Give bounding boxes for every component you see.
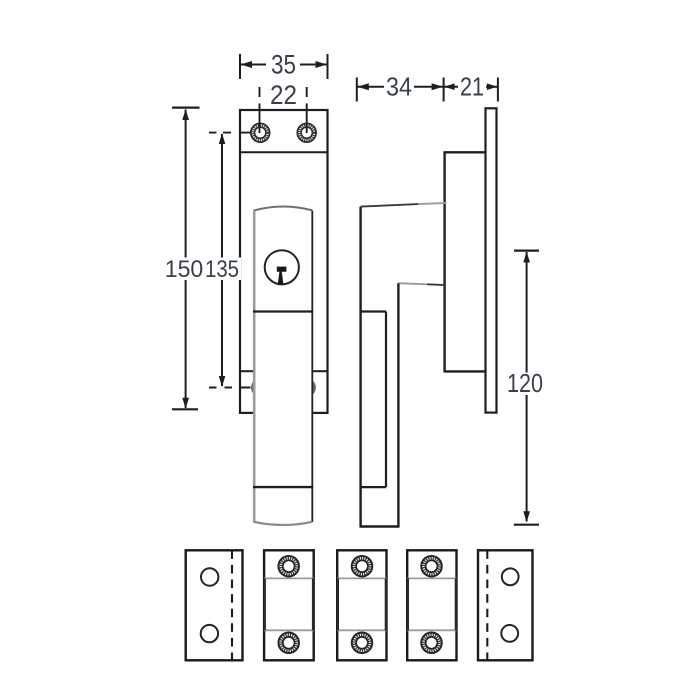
dim 150 arrow up — [182, 109, 189, 120]
handle grip body (front view, covers lower screws) — [254, 207, 313, 526]
backplate top section line — [240, 151, 328, 153]
side grip front edge — [359, 207, 361, 527]
dim 150 bottom bar — [172, 408, 198, 410]
dim 35 extension tick left — [239, 54, 241, 79]
dim 150 text — [163, 258, 204, 281]
dim 34 text — [384, 75, 414, 99]
keeper plate P5 hole bottom — [501, 625, 518, 642]
backplate lower section line left — [240, 370, 254, 372]
dim 150 line — [185, 110, 187, 409]
dim 35 line — [241, 64, 328, 66]
dim 135 text — [204, 258, 241, 281]
svg-text:22: 22 — [270, 80, 297, 110]
svg-text:150: 150 — [165, 256, 204, 283]
keeper plate P5 hole top — [502, 568, 519, 585]
side neck top — [445, 151, 486, 153]
dim 120 top bar — [514, 250, 539, 252]
dim 150 top bar — [172, 106, 200, 108]
keeper plate P5 dashed fold line — [486, 550, 488, 660]
keeper plate P3 screw bottom — [352, 633, 373, 654]
dim 120 arrow down — [523, 511, 530, 522]
keeper plate P3 screw top — [352, 556, 373, 577]
keeper plate P3 outline — [337, 550, 386, 660]
keeper plate P1 hole bottom — [201, 625, 218, 642]
side grip step bottom — [361, 486, 386, 488]
dim 21 arrow left — [444, 83, 455, 90]
dim 35 arrow left — [241, 61, 253, 68]
keeper plate P3 band — [337, 578, 386, 630]
keeper plate P2 outline — [264, 550, 314, 660]
dim 120 arrow up — [523, 252, 530, 263]
keyhole — [277, 267, 287, 285]
keeper plate P2 screw top — [278, 556, 299, 577]
dim 34/21 tick left — [356, 78, 358, 102]
dim 135 arrow down — [219, 376, 226, 387]
dim 135 top dash-dot — [209, 132, 251, 134]
svg-text:34: 34 — [386, 72, 412, 102]
top screw right — [297, 123, 316, 142]
backplate lower section line right — [312, 370, 327, 372]
keeper plate P4 screw top — [421, 556, 442, 577]
dim 120 bottom bar — [514, 524, 539, 526]
dim 35 extension tick right — [327, 54, 329, 79]
dim 120 line — [526, 252, 528, 522]
side neck bottom — [445, 370, 486, 372]
keeper plate P2 band — [264, 578, 314, 630]
dim 34/21 tick right — [497, 78, 499, 102]
keeper plate P4 band — [407, 578, 456, 630]
dim 21 arrow right — [487, 83, 498, 90]
lower screw right (mostly hidden behind grip) — [299, 380, 314, 395]
side grip step top — [361, 310, 386, 312]
keeper plate P4 screw bottom — [421, 633, 442, 654]
side neck front edge — [443, 151, 445, 372]
svg-text:120: 120 — [507, 368, 543, 398]
side grip bottom — [360, 525, 400, 528]
keeper plate P1 hole top — [201, 568, 218, 585]
svg-text:135: 135 — [205, 256, 239, 283]
dim 135 bottom dash-dot — [209, 387, 251, 389]
keeper plate P2 screw bottom — [278, 633, 299, 654]
side grip top slant — [361, 204, 418, 207]
handle left edge (grey shaded) — [253, 211, 256, 522]
dim 21 line — [444, 86, 497, 88]
dim 35 text — [266, 52, 300, 76]
grip bottom curve — [254, 522, 313, 525]
handle right edge — [311, 211, 313, 522]
dim 135 line — [221, 134, 223, 386]
dim 120 text — [506, 373, 546, 396]
handle arch top stroke — [254, 207, 313, 211]
top screw left — [251, 123, 270, 142]
dim 34/21 tick middle — [443, 78, 445, 102]
key cylinder — [265, 250, 299, 284]
keeper plate P1 dashed fold line — [231, 550, 233, 660]
lower screw left (mostly hidden behind grip) — [253, 380, 268, 395]
dim 22 dashed extension left — [259, 87, 261, 133]
dim 34 arrow right — [432, 83, 444, 90]
grip lower band line — [253, 486, 313, 488]
dim 34 arrow left — [357, 83, 369, 90]
svg-text:21: 21 — [460, 72, 484, 102]
svg-text:35: 35 — [271, 50, 296, 80]
side backplate (edge-on) — [486, 108, 497, 412]
dim 135 arrow up — [219, 133, 226, 144]
grip top line — [253, 310, 313, 312]
keeper plate P5 outline — [478, 550, 533, 660]
side grip rear slant — [398, 283, 427, 284]
backplate outline — [240, 110, 328, 413]
dim 21 text — [458, 75, 486, 99]
dim 34 line — [357, 86, 443, 88]
side grip rear edge — [397, 283, 399, 526]
side grip inner edge — [385, 312, 387, 488]
keeper plate P1 outline — [186, 550, 243, 660]
dim 150 arrow down — [182, 398, 189, 409]
dim 35 arrow right — [316, 61, 328, 68]
dim 22 dashed extension right — [306, 87, 308, 133]
keeper plate P4 outline — [407, 550, 456, 660]
